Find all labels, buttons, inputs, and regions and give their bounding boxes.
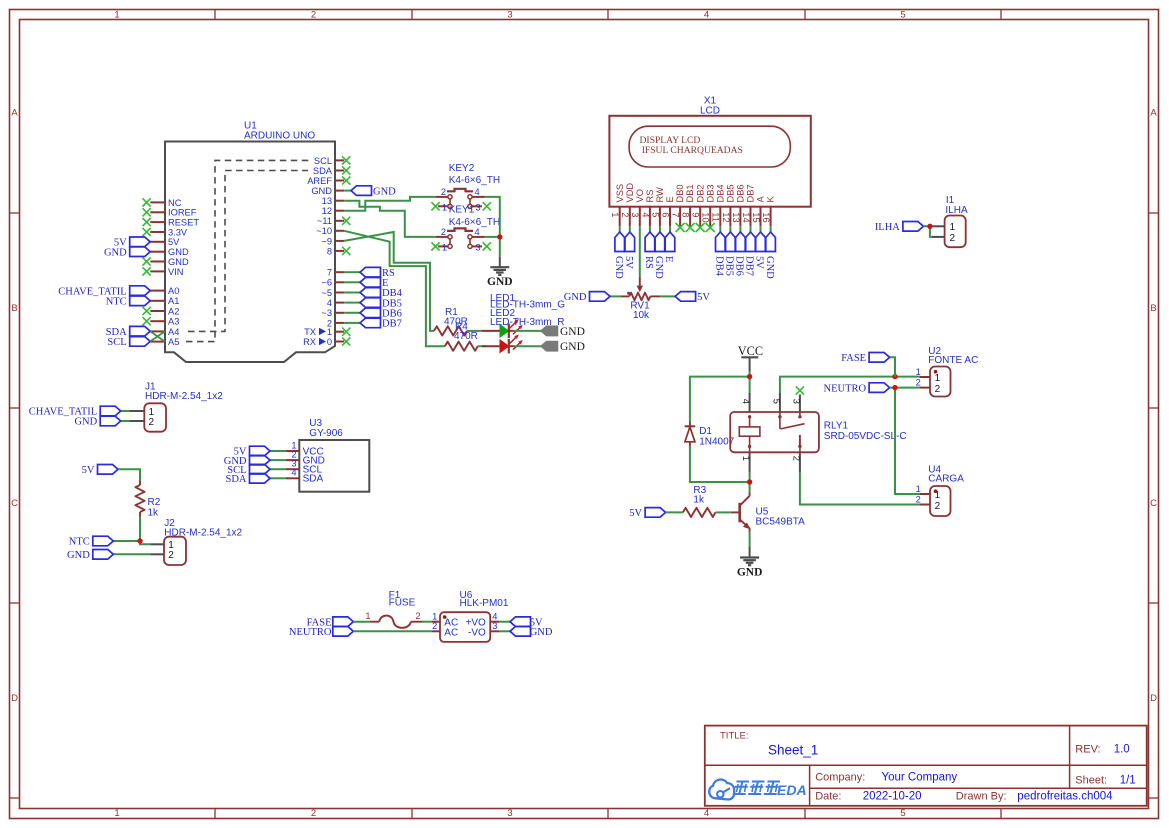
svg-text:3.3V: 3.3V bbox=[168, 227, 188, 237]
svg-text:15: 15 bbox=[751, 212, 761, 222]
svg-text:10: 10 bbox=[701, 212, 711, 222]
svg-text:16: 16 bbox=[761, 212, 771, 222]
svg-text:8: 8 bbox=[681, 212, 691, 217]
svg-text:VO: VO bbox=[635, 189, 645, 202]
net flag SCL (U3) bbox=[227, 464, 286, 476]
svg-text:-VO: -VO bbox=[468, 628, 486, 639]
svg-text:2: 2 bbox=[441, 227, 446, 237]
svg-text:5: 5 bbox=[650, 212, 660, 217]
wire U5 emitter to GND bbox=[749, 532, 751, 547]
KEY2 no-connect X pins 1,3 bbox=[431, 202, 491, 210]
relay pin3 no-connect X bbox=[796, 386, 804, 394]
svg-text:11: 11 bbox=[711, 212, 721, 222]
net flag FASE (F1) bbox=[307, 617, 354, 629]
net flag DB5 (U1) bbox=[344, 298, 402, 310]
svg-text:A: A bbox=[11, 108, 18, 119]
svg-text:2: 2 bbox=[935, 384, 941, 395]
dashed wire A5 to SCL bbox=[186, 160, 309, 341]
net flag GND (U6) bbox=[510, 627, 553, 639]
net flag 5V (X1 pin 2) bbox=[623, 226, 635, 269]
svg-text:2: 2 bbox=[950, 233, 956, 244]
svg-text:Date:: Date: bbox=[815, 791, 841, 803]
svg-text:~6: ~6 bbox=[321, 278, 332, 288]
svg-text:1: 1 bbox=[365, 611, 370, 621]
svg-text:B: B bbox=[11, 303, 17, 314]
connector J2 HDR-M-2.54_1x2 bbox=[150, 518, 242, 565]
svg-text:RESET: RESET bbox=[168, 218, 199, 228]
wire KEY2 pin4 to GND bbox=[485, 197, 500, 257]
svg-text:R2: R2 bbox=[148, 497, 161, 508]
net flag GND (X1 pin 16) bbox=[764, 226, 776, 279]
svg-text:RLY1: RLY1 bbox=[824, 420, 849, 431]
svg-text:NTC: NTC bbox=[106, 297, 127, 308]
connector U2 FONTE AC bbox=[916, 346, 979, 396]
svg-text:4: 4 bbox=[640, 212, 650, 217]
net flag 5V (R3) bbox=[629, 508, 665, 519]
net flag DB7 (X1 pin 14) bbox=[744, 226, 756, 276]
resistor R1 470R bbox=[434, 307, 468, 336]
svg-text:5V: 5V bbox=[629, 508, 642, 519]
svg-text:4: 4 bbox=[291, 468, 296, 478]
wire U1 pin13 to KEY1 pin2 bbox=[344, 201, 436, 237]
svg-text:14: 14 bbox=[741, 212, 751, 222]
svg-text:DB6: DB6 bbox=[736, 184, 746, 202]
net flag 5V (X1 pin 15) bbox=[754, 226, 766, 269]
svg-text:4: 4 bbox=[475, 187, 480, 197]
svg-text:3: 3 bbox=[507, 10, 512, 21]
wire NEUTRO to U2 pin2 and U4 pin1 bbox=[890, 388, 920, 494]
svg-text:DB5: DB5 bbox=[726, 184, 736, 202]
svg-text:1/1: 1/1 bbox=[1120, 775, 1136, 787]
svg-text:470R: 470R bbox=[454, 331, 478, 342]
net flag CHAVE_TATIL (J1) bbox=[29, 406, 130, 418]
net flag NEUTRO bbox=[824, 383, 890, 395]
svg-text:4: 4 bbox=[475, 227, 480, 237]
net flag 5V (U3) bbox=[234, 446, 286, 458]
svg-text:SCL: SCL bbox=[107, 337, 126, 348]
title block bbox=[705, 726, 1147, 806]
svg-text:SCL: SCL bbox=[314, 156, 332, 166]
svg-text:4: 4 bbox=[704, 808, 709, 819]
wire R4 to LED2 bbox=[478, 345, 486, 347]
wire FASE to fuse bbox=[353, 621, 370, 623]
svg-text:GND: GND bbox=[530, 627, 553, 638]
svg-text:Your Company: Your Company bbox=[882, 771, 958, 783]
net flag DB6 (U1) bbox=[344, 308, 402, 320]
net flag SDA (U3) bbox=[225, 474, 286, 486]
svg-text:NC: NC bbox=[168, 198, 182, 208]
svg-text:2: 2 bbox=[620, 212, 630, 217]
svg-text:GND: GND bbox=[560, 326, 585, 338]
svg-text:1: 1 bbox=[442, 203, 447, 213]
svg-text:2022-10-20: 2022-10-20 bbox=[863, 791, 922, 803]
svg-text:2: 2 bbox=[416, 611, 421, 621]
svg-text:GND: GND bbox=[653, 256, 664, 279]
svg-text:TITLE:: TITLE: bbox=[720, 730, 749, 741]
svg-text:GND: GND bbox=[373, 186, 396, 197]
fuse F1 bbox=[365, 590, 422, 628]
svg-text:DB4: DB4 bbox=[714, 256, 725, 277]
svg-text:HDR-M-2.54_1x2: HDR-M-2.54_1x2 bbox=[145, 391, 223, 402]
net flag DB4 (U1) bbox=[344, 288, 402, 300]
svg-text:3: 3 bbox=[476, 203, 481, 213]
svg-text:2: 2 bbox=[916, 378, 921, 388]
wire 5V to R3 bbox=[666, 511, 683, 513]
svg-text:1: 1 bbox=[327, 327, 332, 337]
svg-text:C: C bbox=[1150, 498, 1157, 509]
svg-text:1: 1 bbox=[741, 456, 751, 461]
svg-text:GND: GND bbox=[487, 276, 513, 288]
svg-text:1: 1 bbox=[610, 212, 620, 217]
wire KEY1 pin4 junction bbox=[485, 236, 500, 238]
svg-text:VCC: VCC bbox=[738, 344, 763, 358]
svg-text:2: 2 bbox=[935, 501, 941, 512]
svg-text:1.0: 1.0 bbox=[1114, 743, 1130, 755]
wire SCL flag to A4 crossing bbox=[150, 331, 165, 341]
svg-text:GND: GND bbox=[104, 247, 127, 258]
junction dot VCC node bbox=[747, 374, 752, 379]
svg-text:GND: GND bbox=[564, 292, 587, 303]
svg-text:VDD: VDD bbox=[625, 183, 635, 203]
wire U6 to GND flag bbox=[499, 630, 510, 632]
wire SDA flag to A5 crossing bbox=[150, 331, 165, 341]
svg-text:GND: GND bbox=[67, 550, 90, 561]
svg-text:NTC: NTC bbox=[69, 537, 90, 548]
svg-text:5V: 5V bbox=[697, 292, 710, 303]
svg-text:1: 1 bbox=[432, 611, 437, 621]
LED2 LED-TH-3mm_R bbox=[482, 308, 564, 354]
svg-text:1k: 1k bbox=[148, 508, 160, 519]
svg-text:FONTE AC: FONTE AC bbox=[928, 355, 978, 366]
U1 left no-connect X marks bbox=[143, 198, 151, 325]
wire U6 to 5V flag bbox=[499, 621, 510, 623]
svg-text:NEUTRO: NEUTRO bbox=[289, 627, 332, 638]
svg-text:2: 2 bbox=[168, 550, 174, 561]
wire FASE down bbox=[890, 357, 895, 376]
svg-text:Drawn By:: Drawn By: bbox=[956, 791, 1007, 803]
svg-text:4: 4 bbox=[704, 10, 709, 21]
svg-text:AREF: AREF bbox=[307, 176, 332, 186]
svg-text:1: 1 bbox=[935, 373, 941, 384]
wire U1 pin9 to R1 bbox=[344, 232, 434, 331]
net flag GND (RV1 left) bbox=[564, 292, 621, 304]
svg-text:D: D bbox=[1150, 693, 1157, 704]
gray GND flag (LED2) bbox=[541, 341, 585, 353]
svg-text:IFSUL CHARQUEADAS: IFSUL CHARQUEADAS bbox=[642, 145, 743, 156]
svg-text:BC549BTA: BC549BTA bbox=[756, 516, 806, 527]
X1 no-connect X pins 7-10 bbox=[676, 223, 715, 232]
connector U4 CARGA bbox=[916, 465, 965, 516]
connector J1 HDR-M-2.54_1x2 bbox=[130, 381, 223, 431]
svg-text:1: 1 bbox=[950, 222, 956, 233]
wire R1 to LED1 bbox=[467, 330, 482, 332]
svg-text:C: C bbox=[11, 498, 18, 509]
svg-text:A4: A4 bbox=[168, 327, 179, 337]
svg-text:13: 13 bbox=[731, 212, 741, 222]
svg-text:3: 3 bbox=[791, 399, 801, 404]
svg-text:7: 7 bbox=[327, 268, 332, 278]
gray GND flag (LED1) bbox=[541, 326, 585, 338]
svg-text:K: K bbox=[766, 196, 776, 203]
junction dot NTC node bbox=[137, 538, 142, 543]
svg-text:0: 0 bbox=[327, 337, 332, 347]
svg-text:5: 5 bbox=[900, 808, 905, 819]
wire R3 to U5 base bbox=[716, 511, 731, 513]
net flag RS (X1 pin 4) bbox=[643, 226, 655, 269]
diode D1 1N4007 bbox=[685, 422, 735, 448]
svg-text:E: E bbox=[665, 196, 675, 202]
svg-text:DB0: DB0 bbox=[675, 184, 685, 202]
wire VCC to relay pin4 and D1 bbox=[690, 371, 750, 493]
svg-text:3: 3 bbox=[492, 621, 497, 631]
sensor module U3 GY-906 bbox=[286, 418, 369, 492]
net flag SDA (A4) bbox=[106, 326, 151, 338]
power symbol VCC bbox=[738, 344, 763, 371]
svg-text:KEY1: KEY1 bbox=[449, 205, 475, 216]
net flag 5V (RV1 right) bbox=[660, 292, 710, 304]
net flag GND (J2) bbox=[67, 550, 150, 562]
svg-text:HLK-PM01: HLK-PM01 bbox=[460, 598, 509, 609]
svg-text:RS: RS bbox=[645, 190, 655, 203]
svg-text:5V: 5V bbox=[623, 256, 634, 269]
svg-text:VIN: VIN bbox=[168, 267, 184, 277]
svg-text:DB1: DB1 bbox=[685, 184, 695, 202]
junction dot FASE node bbox=[892, 374, 897, 379]
LED1 LED-TH-3mm_G bbox=[482, 293, 565, 338]
svg-text:DB4: DB4 bbox=[715, 184, 725, 202]
IC U1 ARDUINO UNO body bbox=[165, 120, 335, 362]
svg-text:DB5: DB5 bbox=[724, 256, 735, 276]
svg-text:~11: ~11 bbox=[317, 216, 332, 226]
svg-text:4: 4 bbox=[492, 611, 497, 621]
svg-text:EDA: EDA bbox=[777, 782, 807, 798]
svg-text:3: 3 bbox=[630, 212, 640, 217]
svg-text:GND: GND bbox=[168, 247, 189, 257]
svg-text:SDA: SDA bbox=[303, 474, 324, 485]
svg-text:DB7: DB7 bbox=[744, 256, 755, 276]
svg-text:RX: RX bbox=[303, 337, 316, 347]
ground symbol (U5) bbox=[737, 547, 763, 579]
net flag GND (J1) bbox=[74, 416, 130, 428]
svg-text:GND: GND bbox=[737, 567, 763, 579]
svg-text:NEUTRO: NEUTRO bbox=[824, 383, 867, 394]
svg-text:FASE: FASE bbox=[841, 353, 866, 364]
svg-text:Sheet:: Sheet: bbox=[1075, 775, 1107, 787]
U1 right pins bbox=[303, 156, 344, 347]
svg-text:2: 2 bbox=[441, 187, 446, 197]
svg-text:4: 4 bbox=[741, 399, 751, 404]
U1 left pins bbox=[150, 198, 199, 347]
svg-text:DB2: DB2 bbox=[695, 184, 705, 202]
svg-text:3: 3 bbox=[476, 243, 481, 253]
svg-text:A5: A5 bbox=[168, 337, 179, 347]
svg-text:3: 3 bbox=[507, 808, 512, 819]
X1 pins 1-16 bbox=[610, 183, 776, 227]
svg-text:ILHA: ILHA bbox=[875, 222, 900, 233]
net flag E (X1 pin 6) bbox=[663, 226, 675, 262]
svg-text:~9: ~9 bbox=[321, 236, 332, 246]
net flag 5V (U6) bbox=[510, 617, 543, 629]
wire U1 pin12 to KEY2 pin2 bbox=[344, 197, 436, 211]
net flag DB5 (X1 pin 12) bbox=[724, 226, 736, 276]
wire ILHA to I1 pins bbox=[923, 226, 931, 237]
net flag DB6 (X1 pin 13) bbox=[734, 226, 746, 276]
svg-text:B: B bbox=[1150, 303, 1156, 314]
connector I1 ILHA bbox=[931, 195, 968, 247]
svg-text:DB6: DB6 bbox=[734, 256, 745, 276]
resistor R2 1k bbox=[135, 481, 160, 519]
svg-text:6: 6 bbox=[660, 212, 670, 217]
junction dot KEY1/KEY2 GND bbox=[497, 234, 502, 239]
junction dot collector node bbox=[747, 479, 752, 484]
wire NEUTRO to U6 pin2 bbox=[353, 630, 432, 632]
svg-text:CARGA: CARGA bbox=[928, 474, 964, 485]
net flag SCL (A5) bbox=[107, 337, 150, 349]
svg-text:8: 8 bbox=[327, 246, 332, 256]
JLCEDA logo bbox=[709, 780, 806, 800]
wire LED1 to GND flag bbox=[514, 330, 542, 332]
svg-text:13: 13 bbox=[322, 196, 332, 206]
svg-text:12: 12 bbox=[322, 206, 332, 216]
U1 right no-connect X marks bbox=[342, 156, 350, 345]
pushbutton KEY1 K4-6x6_TH bbox=[436, 205, 500, 253]
svg-text:REV:: REV: bbox=[1075, 743, 1100, 755]
svg-text:LCD: LCD bbox=[700, 105, 720, 116]
svg-text:12: 12 bbox=[721, 212, 731, 222]
svg-text:Sheet_1: Sheet_1 bbox=[768, 743, 818, 758]
wire X1 pin3 VO to RV1 wiper bbox=[639, 226, 641, 277]
dashed wire A4 to SDA bbox=[188, 171, 308, 332]
net flag E (U1) bbox=[344, 278, 388, 290]
svg-text:2: 2 bbox=[791, 456, 801, 461]
svg-text:A1: A1 bbox=[168, 296, 179, 306]
relay RLY1 SRD-05VDC-SL-C bbox=[730, 393, 906, 472]
junction dot ILHA bbox=[927, 224, 932, 229]
svg-text:1k: 1k bbox=[693, 495, 705, 506]
wire R2 to J2 pin1 bbox=[140, 517, 150, 545]
wire U1 pin10 to R4 bbox=[344, 231, 445, 346]
junction dot NEUTRO node bbox=[892, 385, 897, 390]
wire LED2 to GND flag bbox=[514, 345, 542, 347]
svg-text:5: 5 bbox=[771, 399, 781, 404]
svg-text:GND: GND bbox=[311, 186, 332, 196]
wire relay pin5 to U2 pin1 bbox=[780, 377, 920, 393]
wire relay pin2 to U4 pin2 bbox=[800, 472, 920, 505]
svg-text:10k: 10k bbox=[633, 310, 650, 321]
transistor U5 BC549BTA bbox=[731, 493, 805, 532]
resistor R4 470R bbox=[445, 321, 478, 351]
svg-text:2: 2 bbox=[916, 495, 921, 505]
wire fuse to U6 pin1 bbox=[422, 621, 432, 623]
svg-text:IOREF: IOREF bbox=[168, 208, 197, 218]
net flag GND (U1 left) bbox=[104, 247, 150, 259]
net flag GND (X1 pin 1) bbox=[613, 226, 625, 279]
svg-text:A: A bbox=[1150, 108, 1157, 119]
svg-text:RS: RS bbox=[643, 256, 654, 269]
svg-text:5V: 5V bbox=[754, 256, 765, 269]
LCD module X1 body bbox=[609, 96, 810, 207]
svg-text:GND: GND bbox=[613, 256, 624, 279]
potentiometer RV1 10k bbox=[621, 277, 661, 321]
svg-text:TX: TX bbox=[304, 327, 316, 337]
svg-text:~10: ~10 bbox=[316, 226, 332, 236]
svg-text:Company:: Company: bbox=[815, 771, 865, 783]
net flag DB7 (U1) bbox=[344, 318, 402, 330]
svg-text:GND: GND bbox=[764, 256, 775, 279]
net flag NTC (A1) bbox=[106, 296, 151, 308]
svg-text:5: 5 bbox=[900, 10, 905, 21]
svg-text:FUSE: FUSE bbox=[389, 598, 416, 609]
svg-text:RW: RW bbox=[655, 187, 665, 203]
svg-text:GY-906: GY-906 bbox=[309, 428, 343, 439]
net flag ILHA bbox=[875, 222, 924, 234]
net flag GND (U1 GND right) bbox=[344, 186, 396, 198]
svg-text:~5: ~5 bbox=[321, 288, 332, 298]
ground symbol (keys) bbox=[487, 257, 513, 289]
svg-text:A3: A3 bbox=[168, 317, 179, 327]
net flag 5V (R2 top) bbox=[82, 465, 118, 477]
svg-text:7: 7 bbox=[671, 212, 681, 217]
svg-text:9: 9 bbox=[691, 212, 701, 217]
svg-text:DB7: DB7 bbox=[746, 184, 756, 202]
svg-text:4: 4 bbox=[327, 298, 332, 308]
svg-text:2: 2 bbox=[432, 621, 437, 631]
svg-text:1: 1 bbox=[916, 484, 921, 494]
svg-text:E: E bbox=[663, 256, 674, 262]
svg-text:AC: AC bbox=[444, 628, 458, 639]
svg-text:1: 1 bbox=[114, 808, 119, 819]
net flag DB4 (X1 pin 11) bbox=[714, 226, 726, 276]
svg-text:2: 2 bbox=[149, 417, 155, 428]
wire 5V to R2 bbox=[118, 469, 140, 480]
net flag RS (U1) bbox=[344, 267, 395, 279]
net flag GND (U3) bbox=[224, 455, 286, 467]
svg-text:A: A bbox=[756, 196, 766, 203]
svg-text:ILHA: ILHA bbox=[945, 205, 968, 216]
svg-text:1: 1 bbox=[442, 243, 447, 253]
svg-text:VSS: VSS bbox=[615, 184, 625, 203]
pushbutton KEY2 K4-6x6_TH bbox=[436, 163, 500, 213]
net flag NTC (J2) bbox=[69, 536, 140, 548]
net flag 5V (U1) bbox=[114, 237, 150, 249]
svg-text:1: 1 bbox=[916, 367, 921, 377]
svg-text:5V: 5V bbox=[82, 465, 95, 476]
svg-text:ARDUINO UNO: ARDUINO UNO bbox=[244, 131, 315, 142]
svg-text:D: D bbox=[11, 693, 18, 704]
svg-text:SDA: SDA bbox=[225, 474, 246, 485]
svg-text:A0: A0 bbox=[168, 286, 179, 296]
svg-text:K4-6×6_TH: K4-6×6_TH bbox=[449, 175, 500, 186]
power module U6 HLK-PM01 bbox=[432, 590, 509, 642]
svg-text:~3: ~3 bbox=[321, 308, 332, 318]
svg-text:1: 1 bbox=[114, 10, 119, 21]
svg-text:DB3: DB3 bbox=[705, 184, 715, 202]
svg-text:2: 2 bbox=[311, 808, 316, 819]
svg-text:GND: GND bbox=[168, 257, 189, 267]
net flag CHAVE_TATIL (A0) bbox=[58, 286, 150, 298]
svg-text:2: 2 bbox=[311, 10, 316, 21]
net flag FASE bbox=[841, 353, 889, 365]
resistor R3 1k bbox=[683, 485, 716, 517]
net flag NEUTRO (U6) bbox=[289, 627, 353, 639]
svg-text:GND: GND bbox=[560, 341, 585, 353]
svg-text:A2: A2 bbox=[168, 306, 179, 316]
svg-text:KEY2: KEY2 bbox=[449, 163, 475, 174]
svg-text:GND: GND bbox=[74, 417, 97, 428]
svg-text:5V: 5V bbox=[168, 237, 180, 247]
svg-text:pedrofreitas.ch004: pedrofreitas.ch004 bbox=[1017, 791, 1113, 803]
svg-text:D1: D1 bbox=[699, 426, 712, 437]
